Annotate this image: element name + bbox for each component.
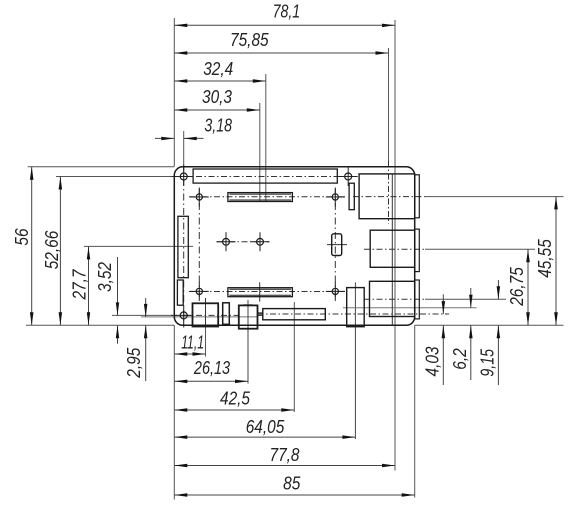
svg-text:52,66: 52,66 — [41, 230, 62, 269]
svg-text:6,2: 6,2 — [449, 348, 470, 370]
svg-text:3,52: 3,52 — [94, 261, 115, 292]
svg-text:85: 85 — [283, 473, 301, 494]
svg-text:75,85: 75,85 — [230, 29, 269, 50]
svg-text:45,55: 45,55 — [534, 239, 555, 278]
svg-text:78,1: 78,1 — [273, 1, 301, 22]
svg-text:64,05: 64,05 — [246, 416, 285, 437]
svg-text:77,8: 77,8 — [270, 444, 301, 465]
svg-text:11,1: 11,1 — [181, 332, 204, 353]
svg-text:3,18: 3,18 — [204, 115, 232, 136]
svg-text:2,95: 2,95 — [123, 347, 144, 378]
svg-text:30,3: 30,3 — [202, 86, 233, 107]
svg-text:27,7: 27,7 — [68, 269, 89, 300]
svg-text:26,75: 26,75 — [506, 267, 527, 307]
svg-text:32,4: 32,4 — [203, 58, 233, 79]
svg-text:56: 56 — [11, 228, 32, 246]
svg-text:9,15: 9,15 — [477, 348, 498, 376]
svg-text:42,5: 42,5 — [220, 388, 251, 409]
svg-text:4,03: 4,03 — [422, 346, 443, 377]
svg-text:26,13: 26,13 — [193, 357, 231, 378]
